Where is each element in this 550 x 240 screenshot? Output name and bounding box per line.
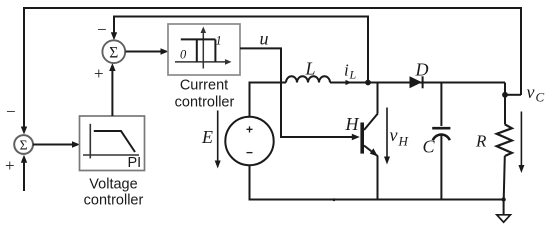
svg-text:−: − bbox=[97, 20, 107, 39]
node: small dot on bottom rail bbox=[333, 198, 336, 201]
current controller: hysteresis left vertical bbox=[196, 39, 198, 62]
svg-text:L: L bbox=[349, 68, 357, 82]
voltage controller: x-axis bbox=[83, 154, 139, 156]
wire: rail corner down to output node bbox=[504, 83, 506, 96]
wire: E bottom terminal to ground rail bbox=[250, 165, 504, 199]
wire: resistor top lead bbox=[504, 95, 506, 125]
svg-text:controller: controller bbox=[84, 193, 144, 209]
block: voltage controller box bbox=[80, 116, 145, 171]
diode D: cathode bar bbox=[422, 76, 424, 88]
arrowhead reference input bbox=[21, 155, 27, 163]
arrow: E voltage bbox=[217, 111, 219, 163]
svg-text:R: R bbox=[475, 132, 487, 151]
svg-text:0: 0 bbox=[180, 48, 187, 62]
svg-text:+: + bbox=[246, 123, 253, 137]
wire: voltage controller output up to S2 bbox=[111, 70, 113, 116]
svg-text:L: L bbox=[305, 59, 316, 79]
svg-text:Current: Current bbox=[180, 78, 228, 94]
wire: vC feedback (right vertical, top horizontal, left vertical) bbox=[24, 8, 521, 127]
transistor H: emitter arrowhead bbox=[370, 148, 378, 156]
svg-text:v: v bbox=[527, 82, 535, 102]
transistor H: emitter diagonal bbox=[364, 146, 378, 157]
node: output node dot (vC) bbox=[502, 92, 508, 98]
svg-text:Voltage: Voltage bbox=[89, 177, 137, 193]
arrow: vH voltage bbox=[386, 108, 388, 159]
svg-text:PI: PI bbox=[128, 155, 142, 171]
svg-text:−: − bbox=[246, 146, 253, 160]
wire: node to feedback riser bbox=[505, 94, 521, 96]
resistor R zigzag bbox=[497, 124, 512, 156]
wire: reference input into S1 bottom bbox=[23, 162, 25, 191]
ground: triangle bbox=[497, 215, 511, 222]
svg-text:v: v bbox=[390, 125, 398, 145]
wire: resistor bottom lead bbox=[504, 156, 505, 200]
current controller: vertical axis bbox=[202, 31, 204, 69]
svg-text:E: E bbox=[201, 127, 213, 147]
wire: rail from inductor to output node bbox=[330, 82, 505, 84]
svg-text:u: u bbox=[260, 29, 269, 49]
arrow: iL current marker on wire bbox=[346, 80, 352, 85]
svg-text:C: C bbox=[536, 90, 545, 105]
arrowhead into voltage controller bbox=[72, 141, 80, 147]
current controller: hysteresis relay top line bbox=[181, 38, 216, 40]
capacitor C: top plate bbox=[432, 127, 450, 130]
svg-text:H: H bbox=[345, 114, 360, 134]
node: ground junction dot bbox=[501, 197, 505, 201]
wire: S1 output to voltage controller bbox=[33, 144, 74, 146]
current controller: hysteresis right vertical bbox=[214, 39, 216, 62]
svg-text:controller: controller bbox=[175, 95, 235, 111]
wire: emitter to bottom rail bbox=[377, 156, 379, 200]
arrowhead axis right bbox=[225, 59, 232, 65]
inductor L bbox=[286, 76, 330, 82]
wire: S2 output to current controller bbox=[126, 51, 163, 53]
capacitor C: curved bottom plate bbox=[433, 135, 450, 141]
ground: stem bbox=[503, 200, 505, 215]
node: iL junction dot bbox=[365, 80, 371, 86]
arrowhead into current controller bbox=[161, 48, 169, 54]
arrow: vC voltage bbox=[520, 112, 522, 167]
wire: capacitor bottom lead bbox=[440, 135, 442, 200]
arrowhead into transistor base bbox=[352, 134, 360, 140]
block: current controller box bbox=[168, 24, 240, 75]
wire: iL feedback (from node on rail up and left into S2) bbox=[114, 17, 368, 83]
voltage controller: PI bode curve bbox=[94, 131, 135, 152]
summing junction S1 (voltage loop) bbox=[14, 135, 33, 154]
svg-text:+: + bbox=[5, 156, 15, 175]
svg-text:D: D bbox=[415, 60, 429, 80]
svg-text:1: 1 bbox=[216, 34, 222, 48]
arrowhead into summing junction S1 top bbox=[21, 127, 27, 135]
wire: u gate drive from controller to transistor base bbox=[240, 48, 353, 137]
wire: collector drop from rail bbox=[377, 83, 379, 114]
diode D: anode triangle bbox=[410, 76, 423, 88]
svg-text:Σ: Σ bbox=[109, 45, 118, 62]
wire: E top terminal to rail bbox=[250, 83, 287, 117]
svg-text:−: − bbox=[6, 102, 16, 121]
source E circle bbox=[225, 117, 273, 165]
svg-text:+: + bbox=[94, 64, 104, 83]
arrowhead into S2 top bbox=[111, 32, 117, 40]
svg-text:Σ: Σ bbox=[20, 138, 28, 153]
transistor H: collector diagonal bbox=[364, 114, 378, 131]
summing junction S2 (current loop) bbox=[102, 40, 125, 63]
voltage controller: y-axis bbox=[89, 124, 91, 159]
svg-text:H: H bbox=[398, 134, 409, 149]
arrowhead into S2 bottom bbox=[109, 63, 115, 71]
svg-text:i: i bbox=[344, 61, 349, 80]
current controller: horizontal axis bbox=[175, 61, 227, 63]
svg-text:C: C bbox=[423, 137, 436, 157]
transistor H: base bar bbox=[360, 123, 364, 154]
wire: capacitor top lead bbox=[440, 83, 442, 127]
arrowhead axis up bbox=[201, 27, 207, 34]
